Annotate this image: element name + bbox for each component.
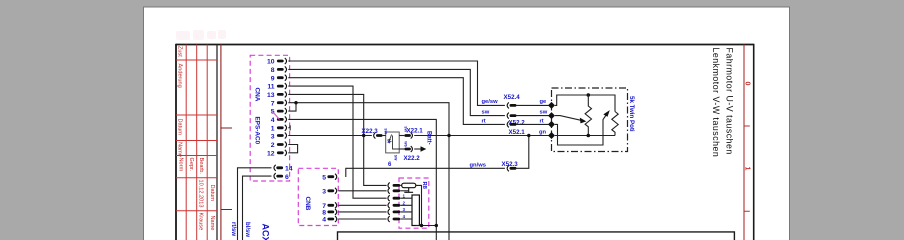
poti terminal diamond ge <box>548 102 555 109</box>
wire CNB pin7 to tap <box>338 204 386 206</box>
wire pin4 long vertical <box>288 119 436 240</box>
junction bottom lead / pin4 vertical <box>435 224 438 227</box>
tap resistor block <box>412 195 419 226</box>
junction gn net / pin7 vertical <box>447 134 450 137</box>
svg-text:8: 8 <box>271 67 275 74</box>
poti terminal diamond rt <box>548 121 555 128</box>
right reference tick marks <box>744 126 750 211</box>
5k twin poti dash-dot box <box>552 88 628 152</box>
wire pin10 to X52.4 <box>288 61 505 105</box>
svg-text:CNA: CNA <box>254 88 261 102</box>
left row-reference red line <box>220 45 222 240</box>
wiper feed from CNB pin3 <box>400 190 408 192</box>
wire pin14 down left (rt/sw) <box>238 168 272 240</box>
svg-text:4: 4 <box>271 117 275 124</box>
svg-text:9: 9 <box>271 75 275 82</box>
svg-text:13: 13 <box>267 92 275 99</box>
Batt- off page arrow <box>414 148 421 150</box>
svg-text:0: 0 <box>744 82 753 86</box>
svg-text:2: 2 <box>271 142 275 149</box>
svg-text:4: 4 <box>322 217 326 224</box>
svg-text:3: 3 <box>322 188 326 195</box>
wire pin8 to X52.2 <box>288 69 505 115</box>
junction gn net / X52.3 riser <box>527 134 530 137</box>
svg-text:8: 8 <box>322 210 326 217</box>
pin 1 dead-end stub <box>288 125 290 130</box>
svg-text:sw: sw <box>383 128 388 134</box>
X22.3 stub to housing <box>383 135 386 137</box>
svg-text:14: 14 <box>285 166 293 173</box>
wire pin7 long vertical <box>288 103 449 240</box>
svg-text:5k Twin Poti: 5k Twin Poti <box>628 96 635 132</box>
svg-text:EPS-AC0: EPS-AC0 <box>254 117 261 145</box>
wire pin11 down to trimmer tap <box>288 86 386 198</box>
gn net wire X22.1 to poti <box>414 135 549 137</box>
wiper 2 (rt) path <box>555 116 606 146</box>
svg-text:CNB: CNB <box>304 197 311 211</box>
CNA pin contacts (oval + chevron) pins 10,8,9,11,13,7,5,4,1,3,2,12 <box>277 60 284 155</box>
resistor R1 zigzag <box>585 95 591 136</box>
jumper mark between pins 5 and 4 <box>273 112 280 120</box>
junction pin3/pin13 net <box>362 134 365 137</box>
X52.4 contact <box>507 102 509 108</box>
wire gn/ws from CNB pin5 to X52.3 <box>346 168 505 177</box>
ACX controller outer box <box>338 232 735 240</box>
svg-text:10: 10 <box>267 59 275 66</box>
svg-text:11: 11 <box>267 84 274 91</box>
X22.2 stub from housing <box>399 148 404 150</box>
trimmer right lead down <box>416 185 422 225</box>
wire CNB pin4 to tap <box>338 218 386 220</box>
trimmer wiper <box>404 188 413 193</box>
svg-text:ACX: ACX <box>261 224 271 240</box>
svg-text:gn/ws: gn/ws <box>470 162 486 168</box>
svg-text:Datum: Datum <box>209 185 215 202</box>
wire pin3 to X22.3 <box>288 135 372 137</box>
svg-text:Batt-: Batt- <box>426 131 432 145</box>
svg-text:rt/sw: rt/sw <box>230 222 236 236</box>
tap pin labels <box>403 193 406 219</box>
wiper 1 (sw) with arrow <box>555 116 581 121</box>
resistor R2 zigzag <box>612 112 618 136</box>
svg-text:sw: sw <box>394 155 399 161</box>
trimmer unit dashed box <box>399 178 429 228</box>
left reference tick marks <box>221 128 232 210</box>
svg-text:10.12.2013: 10.12.2013 <box>198 180 204 208</box>
svg-text:ge: ge <box>540 99 548 105</box>
white schematic page <box>144 7 790 240</box>
poti top rail (ge) <box>555 95 615 112</box>
wire CNB pin8 to tap <box>338 211 386 213</box>
junction trimmer lead / bottom lead <box>420 224 423 227</box>
svg-text:1: 1 <box>744 167 753 171</box>
X22 jumper housing box <box>386 132 400 153</box>
faint pink watermark smudge <box>176 30 226 40</box>
X22 jumper lever <box>389 135 392 143</box>
junction bottom rail R1 <box>587 134 591 138</box>
X22.1 stub from housing <box>399 135 404 137</box>
svg-text:6: 6 <box>285 174 289 181</box>
drawing frame top border <box>176 44 754 46</box>
tap stubs into block <box>400 198 412 219</box>
CNA pin 6 contact <box>274 173 276 179</box>
CNB pin contacts <box>327 175 334 220</box>
svg-text:Datum: Datum <box>177 119 183 136</box>
svg-text:12: 12 <box>267 150 275 157</box>
junction pin5/pin7 <box>294 101 297 104</box>
svg-text:sw: sw <box>403 126 408 132</box>
svg-text:Gepr.: Gepr. <box>188 158 194 172</box>
svg-text:3: 3 <box>271 134 275 141</box>
connector CNA dashed box <box>250 55 289 181</box>
svg-text:X22.3: X22.3 <box>362 128 379 135</box>
svg-text:sw: sw <box>482 110 490 116</box>
jumper wire pin2 to pin12 <box>288 145 297 153</box>
svg-text:sw: sw <box>540 110 548 116</box>
block bottom lead to pin4 net <box>416 225 437 227</box>
wire X52.3 rising to gn net <box>517 136 529 169</box>
svg-text:gn: gn <box>539 129 547 135</box>
title block vertical red lines <box>186 45 207 240</box>
wire pin5 up to pin7 net <box>288 103 296 111</box>
trimmer device contacts (chevron + oval) x6 <box>388 182 390 222</box>
junction top rail R1 <box>587 93 591 97</box>
X52.1 contact <box>507 121 509 127</box>
svg-text:Fahrmotor U-V tauschen: Fahrmotor U-V tauschen <box>725 48 735 155</box>
CNA pin 14 contact <box>274 165 276 171</box>
CNA pin numbers <box>267 59 275 158</box>
svg-text:X22.2: X22.2 <box>404 155 421 162</box>
svg-text:Zust: Zust <box>177 46 183 57</box>
title block horizontal red lines <box>176 60 217 211</box>
svg-text:Änderung: Änderung <box>177 64 184 88</box>
drawing frame left border <box>175 44 177 240</box>
svg-text:1: 1 <box>271 125 275 132</box>
poti terminal diamond sw <box>548 112 555 119</box>
wire pin13 down to poti contact <box>288 94 386 185</box>
svg-text:Krause: Krause <box>198 213 204 231</box>
svg-text:bl/sw: bl/sw <box>244 222 250 237</box>
svg-text:Bearb.: Bearb. <box>198 158 204 175</box>
wire pin9 to X52.1 <box>288 78 505 125</box>
svg-text:Name: Name <box>177 142 183 157</box>
X22.3 contact <box>374 133 376 139</box>
X22.2 contact <box>404 148 411 151</box>
trimmer resistor body <box>400 184 402 186</box>
svg-text:Name: Name <box>209 216 215 231</box>
svg-text:7: 7 <box>271 100 275 107</box>
svg-text:ge/sw: ge/sw <box>482 99 499 105</box>
poti terminal diamond gn <box>548 132 555 139</box>
CNB pin numbers <box>322 174 326 223</box>
X52.2 contact <box>507 113 509 119</box>
drawing frame right border <box>753 44 755 240</box>
wire X52.2 to poti (sw) <box>517 115 549 117</box>
connector CNB dashed box <box>298 168 338 225</box>
wire CNB pin3 to wiper contact <box>338 190 386 192</box>
wire pin6 down left (bl/sw) <box>243 176 272 240</box>
svg-text:5: 5 <box>322 174 326 181</box>
svg-text:X52.4: X52.4 <box>504 94 521 101</box>
svg-text:Norm: Norm <box>178 158 184 172</box>
title block inner right border <box>216 45 218 240</box>
svg-text:br: br <box>386 139 391 144</box>
wire X52.1 to poti (rt) <box>517 123 549 125</box>
svg-text:ws: ws <box>403 140 408 147</box>
X22.1 contact <box>404 134 411 137</box>
wire X52.4 to poti (ge) <box>517 104 549 106</box>
svg-text:rt: rt <box>540 118 544 124</box>
X22 internal link wire <box>393 136 400 150</box>
right row-reference red line <box>743 45 745 240</box>
X52.3 contact <box>507 165 509 171</box>
svg-text:X52.3: X52.3 <box>502 161 519 168</box>
poti bottom rail (gn) <box>555 135 615 137</box>
svg-text:rt: rt <box>482 118 486 124</box>
svg-text:Lenkmotor V-W tauschen: Lenkmotor V-W tauschen <box>711 48 721 158</box>
